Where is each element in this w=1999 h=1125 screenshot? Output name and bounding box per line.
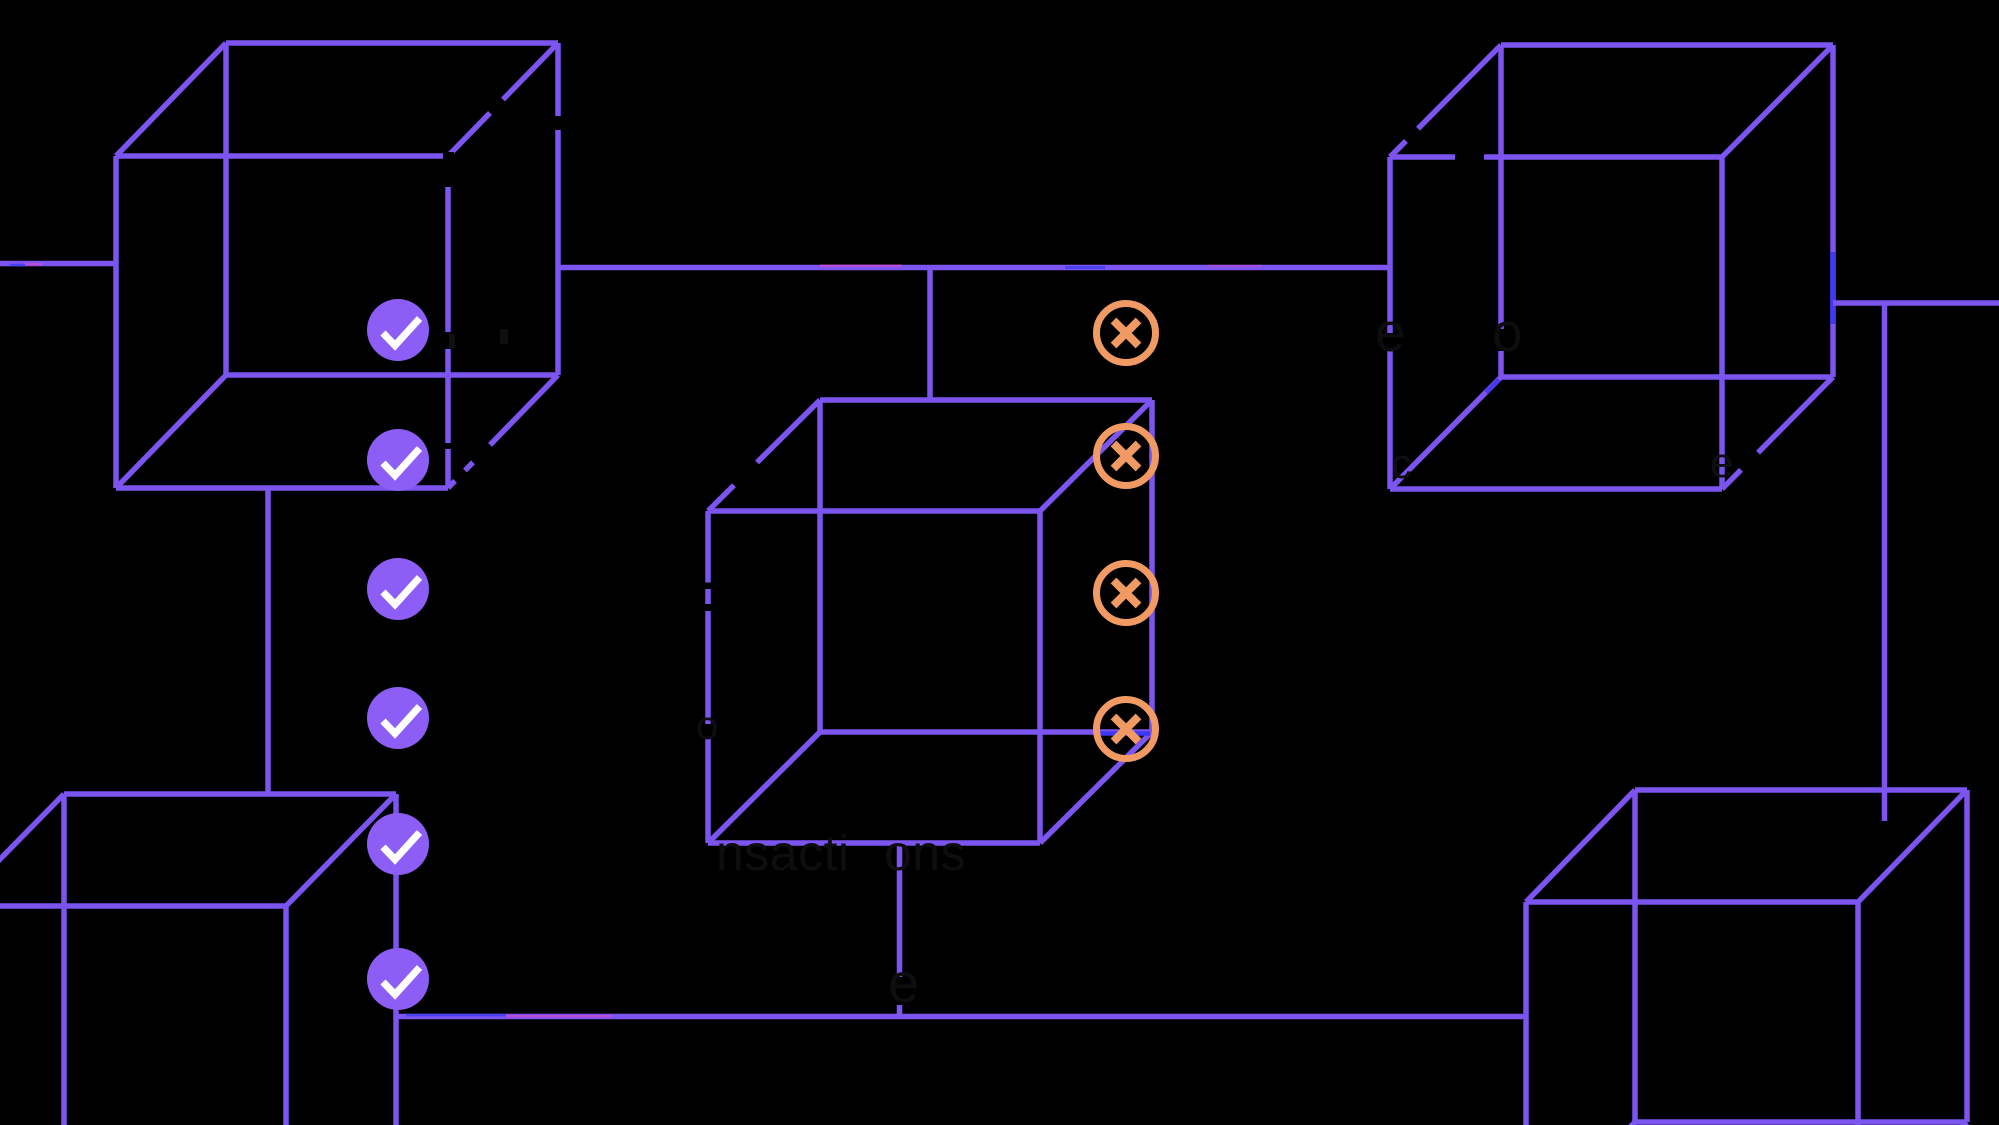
svg-text:o: o (1492, 301, 1523, 363)
svg-text:e: e (1375, 301, 1406, 363)
svg-text:o: o (696, 704, 718, 748)
svg-text:e: e (1710, 439, 1733, 486)
svg-text:e: e (888, 951, 919, 1014)
svg-text:nsacti: nsacti (716, 825, 850, 881)
svg-text:c: c (1391, 440, 1412, 487)
svg-text:ons: ons (884, 825, 966, 881)
